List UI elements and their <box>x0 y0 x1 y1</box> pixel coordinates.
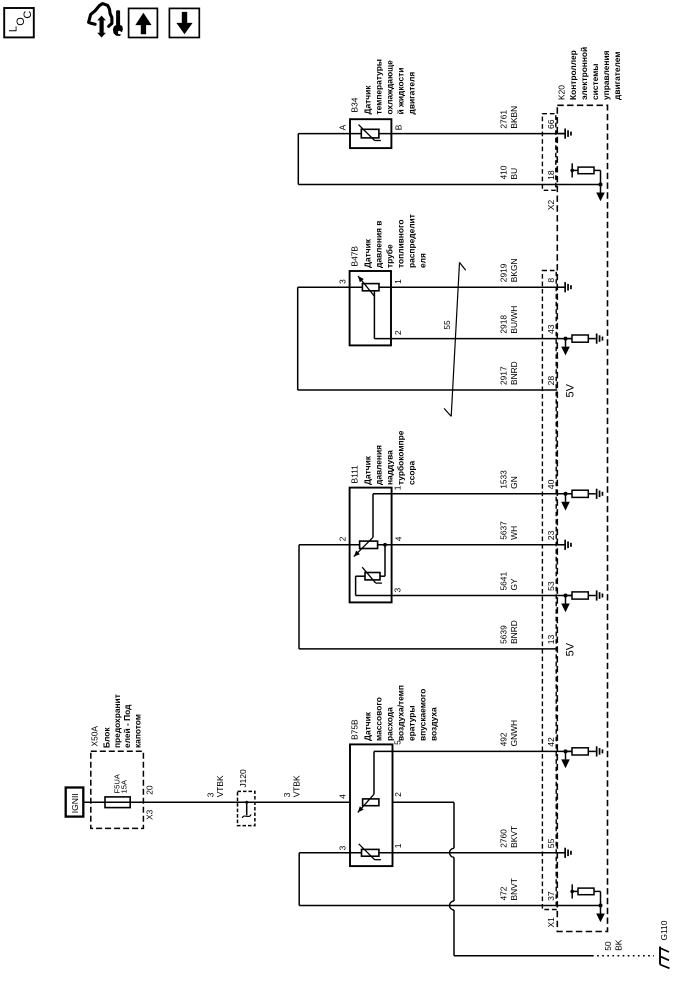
svg-text:20: 20 <box>145 785 155 795</box>
B75B name label <box>350 685 439 741</box>
wire IGNII to B75B pin 4 (3 VTBK feed) <box>83 801 350 803</box>
svg-text:1533: 1533 <box>498 470 508 489</box>
svg-text:IGNII: IGNII <box>70 793 80 813</box>
B34 pin B label <box>393 124 403 130</box>
svg-text:8: 8 <box>546 278 556 283</box>
internal pull-up resistor network at pin 37 <box>570 884 604 922</box>
svg-text:50: 50 <box>603 941 613 951</box>
svg-text:GNWH: GNWH <box>509 720 519 747</box>
svg-text:X3: X3 <box>145 809 155 820</box>
internal pull-up resistor and 5V arrow at pin 43 <box>561 335 596 355</box>
svg-text:2918: 2918 <box>498 315 508 334</box>
svg-text:3: 3 <box>338 845 348 850</box>
connector X1 strip <box>542 271 556 910</box>
svg-text:воздуха/темп: воздуха/темп <box>396 685 406 741</box>
coolant temperature sensor B34 <box>350 119 391 148</box>
B47B pin 1 label <box>393 279 403 284</box>
svg-text:1: 1 <box>393 843 403 848</box>
wire label 472 BNVT <box>498 878 519 900</box>
wire label 2919 BKGN <box>498 258 519 282</box>
pin 55 label <box>546 838 556 848</box>
svg-text:BNVT: BNVT <box>509 878 519 900</box>
svg-text:B34: B34 <box>350 97 360 112</box>
svg-text:5637: 5637 <box>498 521 508 540</box>
svg-text:2917: 2917 <box>498 366 508 385</box>
svg-text:2: 2 <box>393 792 403 797</box>
internal ground at pin 8 <box>558 282 572 292</box>
svg-text:2: 2 <box>338 536 348 541</box>
svg-text:42: 42 <box>546 737 556 747</box>
B75B pin 4 label <box>338 794 348 799</box>
svg-text:L: L <box>7 26 19 32</box>
B111 pin 2 label <box>338 536 348 541</box>
connector X2 strip <box>542 114 555 191</box>
wire label 5639 BNRD <box>498 620 519 644</box>
svg-text:системы: системы <box>590 64 600 100</box>
connector X2 label <box>546 200 556 211</box>
internal pull-up resistor and 5V arrow at pin 40 <box>561 490 596 510</box>
B111 name label <box>350 430 417 485</box>
svg-text:X1: X1 <box>546 917 556 928</box>
internal ground at pin 23 <box>558 540 572 550</box>
wire 1533 GN : B111 pin 1 to K20 pin 40 <box>373 493 572 495</box>
svg-text:5V: 5V <box>565 383 577 397</box>
B47B pin 2 label <box>393 330 403 335</box>
svg-text:492: 492 <box>498 732 508 746</box>
svg-text:трубе: трубе <box>385 244 395 268</box>
internal 5V reference label at pin 13 <box>565 642 577 656</box>
svg-text:распределит: распределит <box>407 214 417 268</box>
svg-text:BNRD: BNRD <box>509 620 519 644</box>
svg-text:5639: 5639 <box>498 625 508 644</box>
svg-text:3: 3 <box>338 279 348 284</box>
harness 55 label <box>442 320 452 330</box>
pin 42 label <box>546 737 556 747</box>
internal ground at pin 40 resistor <box>596 489 604 499</box>
svg-text:Датчик: Датчик <box>363 711 373 741</box>
B34 name label <box>350 59 417 114</box>
internal pull-up resistor network at pin 18 <box>570 163 604 201</box>
svg-text:капотом: капотом <box>132 714 142 748</box>
svg-text:ературы: ературы <box>407 705 417 741</box>
internal ground at pin 55 <box>558 848 572 858</box>
internal pull-up resistor and 5V arrow at pin 42 <box>561 748 596 768</box>
pin 8 label <box>546 278 556 283</box>
svg-text:C: C <box>22 11 34 19</box>
svg-text:18: 18 <box>546 170 556 180</box>
svg-text:410: 410 <box>498 165 508 179</box>
pin 40 label <box>546 479 556 489</box>
wire label 50 BK <box>603 939 623 951</box>
internal ground at pin 42 resistor <box>596 746 604 756</box>
wire 2760 BKVT : B75B pin 1 to K20 pin 55 <box>299 852 564 854</box>
svg-text:A: A <box>338 124 348 130</box>
mass air flow / intake air temp sensor B75B <box>350 744 393 866</box>
wire label 5637 WH <box>498 521 519 540</box>
svg-text:BNRD: BNRD <box>509 361 519 385</box>
svg-text:B111: B111 <box>350 465 360 484</box>
wire label 410 BU <box>498 165 519 179</box>
B47B pin 3 label <box>338 279 348 284</box>
svg-text:B75B: B75B <box>350 719 360 740</box>
svg-text:66: 66 <box>546 119 556 129</box>
wire 2918 BU/WH : B47B pin 2 to K20 pin 43 <box>374 338 572 340</box>
fuse F5UA 15A <box>105 773 130 807</box>
wire 410 BU : to K20 pin 18 <box>298 184 600 186</box>
svg-text:2919: 2919 <box>498 263 508 282</box>
svg-text:WH: WH <box>509 526 519 540</box>
wire 492 GNWH : B75B pin 5 to K20 pin 42 <box>374 750 572 752</box>
wire label 2918 BU/WH <box>498 306 519 334</box>
svg-text:J120: J120 <box>238 769 248 788</box>
svg-text:BKBN: BKBN <box>509 106 519 129</box>
wire 50 BK : to ground G110 <box>454 955 654 957</box>
wire label 2917 BNRD <box>498 361 519 385</box>
svg-text:предохранит: предохранит <box>112 694 122 748</box>
svg-text:43: 43 <box>546 324 556 334</box>
svg-text:еля: еля <box>418 253 428 268</box>
svg-text:Датчик: Датчик <box>363 238 373 268</box>
svg-text:40: 40 <box>546 479 556 489</box>
K20 name label <box>557 47 623 100</box>
svg-text:топливного: топливного <box>396 220 406 268</box>
vehicle adjust / wrench icon <box>89 4 123 38</box>
wire 472 BNVT : to K20 pin 37 <box>299 905 600 907</box>
wire label 2761 BKBN <box>498 106 519 129</box>
LOC locator icon box <box>4 8 34 37</box>
B111 pin 4 label <box>393 536 403 541</box>
svg-text:впускаемого: впускаемого <box>418 689 428 741</box>
svg-text:расхода: расхода <box>385 707 395 741</box>
pin 53 label <box>546 581 556 591</box>
svg-text:4: 4 <box>393 536 403 541</box>
svg-text:15A: 15A <box>120 779 129 793</box>
svg-text:BKGN: BKGN <box>509 258 519 282</box>
wire 2919 BKGN : B47B pin 1 to K20 pin 8 <box>298 286 565 288</box>
svg-text:55: 55 <box>442 320 452 330</box>
ground G110 <box>659 920 670 968</box>
scroll up button <box>129 8 158 37</box>
svg-text:2: 2 <box>393 330 403 335</box>
svg-text:3: 3 <box>393 588 403 593</box>
svg-text:Контроллер: Контроллер <box>568 50 578 100</box>
svg-text:турбокомпре: турбокомпре <box>396 430 406 485</box>
svg-text:Блок: Блок <box>102 727 112 748</box>
B111 pin 3 label <box>393 588 403 593</box>
wire : B47B pin 3 detour rail <box>297 287 299 390</box>
B75B pin 5 label <box>393 740 403 745</box>
B75B pin 1 label <box>393 843 403 848</box>
svg-text:воздуха: воздуха <box>429 707 439 741</box>
svg-text:1: 1 <box>393 279 403 284</box>
pin 37 label <box>546 891 556 901</box>
pin 23 label <box>546 530 556 540</box>
svg-text:5641: 5641 <box>498 572 508 591</box>
svg-text:электронной: электронной <box>579 47 589 100</box>
svg-text:B47B: B47B <box>350 246 360 267</box>
svg-text:BU/WH: BU/WH <box>509 306 519 334</box>
splice J120 <box>238 769 255 826</box>
svg-text:X2: X2 <box>546 200 556 211</box>
wire label 3 VTBK (left of J120) <box>206 775 225 797</box>
pin 13 label <box>546 635 556 645</box>
svg-text:55: 55 <box>546 838 556 848</box>
svg-text:53: 53 <box>546 581 556 591</box>
svg-text:B: B <box>393 124 403 130</box>
svg-text:GY: GY <box>509 578 519 591</box>
pin 28 label <box>546 376 556 386</box>
svg-text:BKVT: BKVT <box>509 826 519 848</box>
svg-text:температуры: температуры <box>374 59 384 114</box>
wire label 492 GNWH <box>498 720 519 747</box>
wire : B75B pin 2 to ground rail (with hops) <box>393 802 455 956</box>
svg-text:ссора: ссора <box>407 460 417 485</box>
svg-text:2760: 2760 <box>498 829 508 848</box>
svg-text:X50A: X50A <box>90 726 100 747</box>
wire label 1533 GN <box>498 470 519 489</box>
wire : B111 pin 2 detour rail <box>298 545 300 649</box>
svg-text:Датчик: Датчик <box>363 85 373 115</box>
fuel rail pressure sensor B47B <box>350 271 391 345</box>
svg-text:массового: массового <box>374 697 384 741</box>
svg-text:5V: 5V <box>565 642 577 656</box>
X50A label <box>90 694 143 748</box>
B34 pin A label <box>338 124 348 130</box>
svg-text:VTBK: VTBK <box>291 775 301 797</box>
wire label 2760 BKVT <box>498 826 519 848</box>
pin 66 label <box>546 119 556 129</box>
B75B pin 3 label <box>338 845 348 850</box>
svg-text:двигателем: двигателем <box>612 52 622 100</box>
connector X3 label <box>145 809 155 820</box>
internal pull-up resistor and 5V arrow at pin 53 <box>561 592 596 612</box>
svg-text:28: 28 <box>546 376 556 386</box>
wire 5639 BNRD : to K20 pin 13 (5V) <box>299 648 557 650</box>
svg-text:VTBK: VTBK <box>215 775 225 797</box>
svg-text:2761: 2761 <box>498 110 508 129</box>
fuse block X50A dashed box <box>91 751 144 828</box>
svg-text:BU: BU <box>509 168 519 180</box>
svg-text:G110: G110 <box>659 920 669 940</box>
wire 2761 BKBN : B34 pin B to K20 pin 66 <box>298 133 564 135</box>
svg-text:23: 23 <box>546 530 556 540</box>
svg-text:4: 4 <box>338 794 348 799</box>
svg-text:давления: давления <box>374 445 384 485</box>
IGNII power feed box <box>66 788 84 817</box>
svg-text:давления в: давления в <box>374 221 384 268</box>
pin 43 label <box>546 324 556 334</box>
internal 5V reference label at pin 28 <box>565 383 577 397</box>
svg-text:наддува: наддува <box>385 450 395 485</box>
wire 5641 GY : B111 pin 3 to K20 pin 53 <box>356 595 572 597</box>
wire label 3 VTBK (right of J120) <box>282 775 301 797</box>
svg-text:елей - Под: елей - Под <box>122 704 132 748</box>
svg-text:двигателя: двигателя <box>407 72 417 115</box>
connector X1 label <box>546 917 556 928</box>
internal ground at pin 66 <box>558 129 572 139</box>
svg-text:GN: GN <box>509 476 519 489</box>
harness 55 crossing line <box>444 262 466 416</box>
wire label 5641 GY <box>498 572 519 591</box>
scroll down button <box>169 8 199 37</box>
B75B pin 2 label <box>393 792 403 797</box>
turbo boost pressure sensor B111 <box>350 488 392 603</box>
internal ground at pin 53 resistor <box>596 590 604 600</box>
ECM K20 controller dashed box <box>557 105 607 931</box>
svg-text:й жидкости: й жидкости <box>396 68 406 115</box>
B47B name label <box>350 214 428 268</box>
svg-text:472: 472 <box>498 886 508 900</box>
svg-text:BK: BK <box>613 939 623 951</box>
B111 pin 1 label <box>393 485 403 490</box>
pin 20 label at X50A <box>145 785 155 795</box>
svg-text:Датчик: Датчик <box>363 455 373 485</box>
svg-text:37: 37 <box>546 891 556 901</box>
svg-text:охлаждающе: охлаждающе <box>385 60 395 115</box>
wire 2917 BNRD : to K20 pin 28 (5V) <box>298 389 558 391</box>
svg-text:K20: K20 <box>557 85 567 100</box>
wire : B75B pin 3 detour rail <box>298 853 300 906</box>
wire 5637 WH : B111 pin 4 to K20 pin 23 <box>299 544 564 546</box>
svg-text:13: 13 <box>546 635 556 645</box>
internal ground at pin 43 resistor <box>596 334 604 344</box>
wire : B34 pin A detour rail <box>297 134 299 185</box>
svg-text:управления: управления <box>601 50 611 100</box>
pin 18 label <box>546 170 556 180</box>
